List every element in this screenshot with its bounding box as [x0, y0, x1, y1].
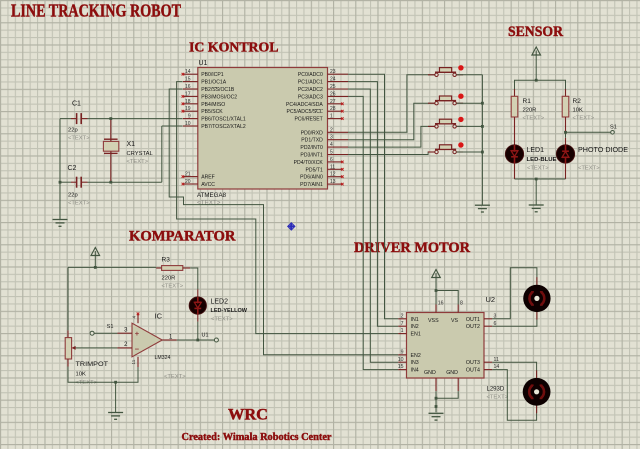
- svg-text:PC3/ADC3: PC3/ADC3: [298, 94, 323, 100]
- junction: LED2 / output wire: [196, 339, 199, 342]
- wire: ground rail left of crystal: [59, 119, 61, 219]
- wire: trimpot bottom / ground net: [68, 359, 138, 382]
- svg-text:AREF: AREF: [201, 175, 215, 181]
- svg-text:U1: U1: [202, 333, 209, 339]
- svg-text:R1: R1: [523, 98, 532, 105]
- svg-text:+: +: [135, 329, 140, 338]
- svg-text:PD2/INT0: PD2/INT0: [300, 145, 323, 151]
- svg-text:OUT2: OUT2: [466, 324, 480, 330]
- svg-text:GND: GND: [424, 370, 436, 376]
- trimpot RV1 (TRIMPOT 10K): [65, 338, 108, 386]
- photodiode (PHOTO DIODE): [556, 145, 628, 171]
- wire: S1 to op-amp pin 3: [94, 327, 132, 333]
- svg-text:DRIVER MOTOR: DRIVER MOTOR: [354, 240, 470, 256]
- svg-text:PC1/ADC1: PC1/ADC1: [298, 80, 323, 86]
- svg-text:2: 2: [330, 127, 333, 133]
- svg-text:EN2: EN2: [411, 353, 421, 359]
- svg-text:Created: Wimala Robotics Cente: Created: Wimala Robotics Center: [182, 432, 332, 443]
- svg-text:PD6/AIN0: PD6/AIN0: [300, 175, 323, 181]
- svg-text:PB6/TOSC1/XTAL1: PB6/TOSC1/XTAL1: [201, 117, 246, 123]
- svg-text:15: 15: [398, 364, 404, 370]
- svg-text:12: 12: [330, 172, 336, 178]
- svg-text:KOMPARATOR: KOMPARATOR: [129, 229, 236, 245]
- svg-text:U2: U2: [486, 295, 496, 304]
- U1 pin 4 PD2/INT0: [300, 142, 348, 151]
- section label: DRIVER MOTOR: [354, 240, 470, 256]
- svg-text:4: 4: [132, 316, 137, 319]
- svg-text:1: 1: [330, 114, 333, 120]
- svg-text:9: 9: [401, 349, 404, 355]
- svg-text:LED-YELLOW: LED-YELLOW: [211, 308, 248, 314]
- U2 pin 6 OUT2: [466, 321, 497, 330]
- wire: PC2 to IN3 of U2: [348, 89, 398, 362]
- wire: ground drop: [115, 382, 117, 412]
- svg-text:<TEXT>: <TEXT>: [164, 374, 186, 380]
- led LED2 (LED-YELLOW): [189, 297, 247, 322]
- wire: R2 to photo diode, S1 tap: [566, 117, 611, 145]
- U1 pin 3 PD1/TXD: [301, 135, 348, 144]
- svg-text:<TEXT>: <TEXT>: [527, 165, 549, 171]
- wire: OUT1 to motor M1 top: [492, 268, 537, 319]
- text: WRC: [228, 407, 268, 424]
- svg-text:S1: S1: [107, 324, 114, 330]
- U2 pin 8 VS (top): [451, 300, 463, 324]
- capacitor C2: [68, 165, 91, 207]
- svg-text:C1: C1: [72, 101, 81, 108]
- U1 pin 1 PC6/RESET: [294, 114, 343, 123]
- svg-text:7: 7: [401, 321, 404, 327]
- svg-text:IC KONTROL: IC KONTROL: [189, 39, 279, 54]
- wire: sensor bottom rail to ground: [515, 163, 566, 205]
- svg-text:26: 26: [330, 91, 336, 97]
- U1 pin 10 PB7/TOSC2/XTAL2: [183, 121, 246, 130]
- svg-text:IN3: IN3: [411, 360, 419, 366]
- svg-text:10K: 10K: [76, 371, 86, 377]
- U1 pin 27 PC4/ADC4/SDA: [286, 99, 344, 108]
- section label: KOMPARATOR: [129, 229, 236, 245]
- wire: PC3 to IN4 of U2: [348, 96, 398, 369]
- svg-text:IC: IC: [155, 312, 163, 321]
- svg-text:L293D: L293D: [487, 386, 505, 392]
- U1 pin 18 PB4/MISO: [182, 99, 226, 108]
- terminal S1 (komparator input): [90, 324, 113, 335]
- svg-text:24: 24: [330, 77, 336, 83]
- U1 pin 5 PD3/INT1: [300, 150, 348, 159]
- push button 3: [428, 117, 464, 128]
- power symbol (sensor): [532, 47, 541, 80]
- junction: power / sensor rail: [535, 79, 538, 82]
- svg-text:R3: R3: [162, 257, 171, 264]
- svg-text:X1: X1: [127, 141, 136, 148]
- svg-text:2: 2: [401, 313, 404, 319]
- svg-text:PD3/INT1: PD3/INT1: [300, 153, 323, 159]
- junction: crystal top / XTAL1: [109, 117, 112, 120]
- junction: R2 / S1 tap: [564, 131, 567, 134]
- svg-text:28: 28: [330, 106, 336, 112]
- svg-text:IN1: IN1: [411, 317, 419, 323]
- U1 pin 24 PC1/ADC1: [298, 77, 348, 86]
- svg-text:AVCC: AVCC: [201, 182, 215, 188]
- svg-text:11: 11: [330, 164, 335, 170]
- wire: button 3 to ground rail: [457, 125, 483, 127]
- wire: OUT2 to motor M1 bottom: [492, 312, 537, 326]
- title text: LINE TRACKING ROBOT: [11, 1, 181, 21]
- U1 pin 21 AREF: [182, 172, 215, 181]
- svg-text:20: 20: [185, 179, 191, 185]
- wire: button 2 to ground rail: [457, 102, 483, 104]
- crystal X1: [103, 119, 153, 183]
- U2 pin 15 IN4: [398, 364, 419, 373]
- ic U1 ATMEGA8 body: [197, 60, 328, 207]
- svg-text:23: 23: [330, 69, 336, 75]
- ground (buttons): [475, 205, 490, 212]
- wire: U1 pin 15 PB1 to EN1 of U2: [177, 82, 399, 334]
- U1 pin 2 PD0/RXD: [301, 127, 348, 136]
- svg-text:PC4/ADC4/SDA: PC4/ADC4/SDA: [286, 102, 323, 108]
- wire: OUT3 to motor M2 top: [492, 362, 536, 378]
- motor M2: [523, 370, 551, 413]
- svg-text:21: 21: [185, 172, 191, 178]
- svg-text:<TEXT>: <TEXT>: [211, 316, 233, 322]
- junction: power / rail: [94, 266, 97, 269]
- svg-text:−: −: [135, 345, 140, 354]
- led LED1 (LED-BLUE): [505, 145, 556, 171]
- U2 pin 3 OUT1: [466, 313, 497, 322]
- op-amp U3 LM324: [132, 312, 186, 381]
- U1 pin 28 PC5/ADC5/SCL: [287, 106, 344, 115]
- U2 pin 7 IN2: [398, 321, 418, 330]
- U2 pin 4 GND (bottom left): [424, 370, 436, 391]
- junction: button 3 / rail: [481, 125, 484, 128]
- section label: SENSOR: [508, 24, 563, 40]
- U2 pin 16 VSS (top): [428, 300, 444, 324]
- svg-text:CRYSTAL: CRYSTAL: [127, 151, 154, 157]
- svg-text:TRIMPOT: TRIMPOT: [76, 361, 109, 368]
- svg-text:PC0/ADC0: PC0/ADC0: [298, 72, 323, 78]
- svg-text:PB0/ICP1: PB0/ICP1: [201, 72, 224, 78]
- svg-text:PD1/TXD: PD1/TXD: [301, 138, 323, 144]
- U1 pin 14 PB0/ICP1: [182, 69, 224, 78]
- svg-text:GND: GND: [446, 370, 458, 376]
- svg-text:8: 8: [460, 300, 463, 306]
- svg-text:IN4: IN4: [411, 368, 419, 374]
- power symbol (driver): [432, 270, 441, 305]
- svg-text:PD0/RXD: PD0/RXD: [301, 130, 323, 136]
- wire: buttons ground rail: [481, 75, 483, 205]
- svg-text:C2: C2: [68, 165, 77, 172]
- svg-text:10: 10: [398, 357, 404, 363]
- svg-text:OUT4: OUT4: [466, 368, 480, 374]
- push button 2: [428, 94, 464, 105]
- svg-text:PB3/MOSI/OC2: PB3/MOSI/OC2: [201, 94, 237, 100]
- U1 pin 25 PC2/ADC2: [298, 84, 348, 93]
- svg-text:<TEXT>: <TEXT>: [523, 116, 545, 122]
- U1 pin 15 PB1/OC1A: [183, 77, 227, 86]
- power symbol (komparator): [91, 248, 100, 268]
- svg-text:11: 11: [131, 359, 136, 364]
- junction: sensor ground drop: [535, 178, 538, 181]
- wire: R1 to LED1: [514, 117, 516, 145]
- svg-text:OUT3: OUT3: [466, 360, 480, 366]
- U1 pin 13 PD7/AIN1: [300, 179, 343, 188]
- junction: ground wire: [435, 405, 438, 408]
- svg-text:3: 3: [330, 135, 333, 141]
- svg-text:S1: S1: [610, 125, 617, 131]
- svg-text:PD5/T1: PD5/T1: [306, 167, 323, 173]
- svg-text:VSS: VSS: [428, 318, 439, 324]
- ground (sensor): [529, 205, 544, 212]
- wire: PD2 to button 3: [348, 126, 435, 147]
- svg-text:17: 17: [185, 91, 191, 97]
- svg-text:15: 15: [185, 77, 191, 83]
- svg-text:LINE TRACKING ROBOT: LINE TRACKING ROBOT: [11, 1, 181, 21]
- wire: LED2 to op-amp output net: [197, 314, 199, 340]
- svg-text:LED1: LED1: [527, 147, 545, 154]
- push button 1: [428, 65, 464, 76]
- svg-text:14: 14: [185, 69, 191, 75]
- svg-text:PD7/AIN1: PD7/AIN1: [300, 182, 323, 188]
- svg-text:IN2: IN2: [411, 324, 419, 330]
- motor M1: [523, 277, 550, 319]
- wire: VS branch to power: [436, 291, 458, 305]
- svg-text:<TEXT>: <TEXT>: [578, 165, 600, 171]
- wire: OUT4 to motor M2 bottom: [492, 370, 536, 421]
- U1 pin 20 AVCC: [182, 179, 216, 188]
- junction: crystal bottom / XTAL2: [109, 181, 112, 184]
- U2 pin 14 OUT4: [466, 364, 500, 373]
- junction: VS branch: [435, 289, 438, 292]
- svg-text:4: 4: [330, 142, 333, 148]
- svg-text:R2: R2: [573, 98, 582, 105]
- svg-text:PB5/SCK: PB5/SCK: [201, 109, 223, 115]
- svg-text:PC2/ADC2: PC2/ADC2: [298, 87, 323, 93]
- junction: GND pins join: [435, 397, 438, 400]
- U2 pin 11 OUT3: [466, 357, 499, 366]
- wire: button 4 to ground rail: [457, 151, 483, 153]
- svg-text:PD4/T0/XCK: PD4/T0/XCK: [294, 160, 324, 166]
- svg-text:19: 19: [185, 106, 191, 112]
- svg-text:<TEXT>: <TEXT>: [76, 380, 98, 386]
- U2 pin 13 GND (bottom right): [446, 370, 458, 391]
- svg-text:EN1: EN1: [411, 332, 421, 338]
- svg-text:13: 13: [330, 179, 336, 185]
- capacitor C1: [68, 101, 90, 142]
- wire: U2 ground net: [436, 391, 458, 412]
- origin marker (blue): [288, 223, 295, 230]
- svg-text:18: 18: [185, 99, 191, 105]
- svg-text:<TEXT>: <TEXT>: [573, 116, 595, 122]
- svg-text:OUT1: OUT1: [466, 317, 480, 323]
- svg-text:PB2/SS/OC1B: PB2/SS/OC1B: [201, 87, 235, 93]
- junction: C2 wire / ground rail: [59, 181, 62, 184]
- svg-text:16: 16: [185, 84, 191, 90]
- U1 pin 17 PB3/MOSI/OC2: [182, 91, 238, 100]
- op-amp power pin 4 (top stub): [132, 313, 140, 324]
- svg-text:U1: U1: [199, 60, 208, 67]
- U1 pin 9 PB6/TOSC1/XTAL1: [183, 114, 246, 123]
- svg-text:22p: 22p: [68, 192, 78, 198]
- wire: sensor V+ rail: [515, 80, 566, 96]
- U1 pin 16 PB2/SS/OC1B: [183, 84, 235, 93]
- wire: R3 to LED2: [183, 268, 198, 297]
- wire: PD0 to button 1: [348, 75, 435, 133]
- svg-text:22p: 22p: [68, 127, 78, 133]
- svg-text:27: 27: [330, 99, 336, 105]
- svg-text:<TEXT>: <TEXT>: [127, 159, 149, 165]
- U1 pin 11 PD5/T1: [306, 164, 344, 173]
- wire: PC1 to IN2 of U2: [348, 82, 398, 327]
- wire: trimpot wiper to op-amp pin 2: [74, 342, 132, 348]
- svg-text:VS: VS: [451, 318, 459, 324]
- text: Created Wimala Robotics Center: [182, 432, 332, 443]
- svg-text:1: 1: [401, 328, 404, 334]
- U2 pin 2 IN1: [398, 313, 418, 322]
- U2 pin 1 EN1: [398, 328, 421, 337]
- wire XTAL1 net: C1 to U1 pin 9: [60, 118, 183, 120]
- wire: PC0 to IN1 of U2: [348, 74, 398, 319]
- svg-text:5: 5: [330, 150, 333, 156]
- wire: button 1 to ground rail: [457, 74, 483, 76]
- resistor R2: [562, 96, 595, 121]
- wire: PD1 to button 2: [348, 103, 435, 140]
- wire: U1 pin 16 PB2 to EN2 of U2: [169, 89, 398, 355]
- U1 pin 12 PD6/AIN0: [300, 172, 343, 181]
- svg-text:PB7/TOSC2/XTAL2: PB7/TOSC2/XTAL2: [201, 124, 246, 130]
- U1 pin 6 PD4/T0/XCK: [294, 157, 344, 166]
- ground (komparator): [108, 413, 123, 420]
- U1 pin 26 PC3/ADC3: [298, 91, 348, 100]
- wire: PD3 to button 4: [348, 152, 435, 155]
- svg-text:25: 25: [330, 84, 336, 90]
- svg-text:220R: 220R: [162, 275, 176, 281]
- op-amp power pin 11 (bottom stub): [131, 357, 138, 367]
- svg-text:PHOTO DIODE: PHOTO DIODE: [578, 147, 628, 154]
- junction: button 2 / rail: [481, 102, 484, 105]
- svg-text:<TEXT>: <TEXT>: [68, 201, 90, 207]
- svg-text:PB1/OC1A: PB1/OC1A: [201, 80, 227, 86]
- svg-text:6: 6: [330, 157, 333, 163]
- svg-text:ATMEGA8: ATMEGA8: [197, 192, 226, 199]
- svg-text:<TEXT>: <TEXT>: [197, 200, 221, 207]
- terminal U1 (komparator output): [202, 333, 219, 342]
- svg-text:LED2: LED2: [211, 298, 229, 305]
- wire XTAL2 net: C2 to U1 pin 10: [60, 126, 183, 182]
- junction: ground drop: [114, 381, 117, 384]
- U1 pin 19 PB5/SCK: [182, 106, 224, 115]
- ic U2 L293D body: [407, 295, 509, 401]
- svg-text:<TEXT>: <TEXT>: [68, 136, 90, 142]
- junction: button 4 / rail: [481, 151, 484, 154]
- U2 pin 9 EN2: [398, 349, 421, 358]
- svg-text:PC6/RESET: PC6/RESET: [294, 117, 322, 123]
- svg-text:<TEXT>: <TEXT>: [487, 395, 509, 401]
- svg-text:PC5/ADC5/SCL: PC5/ADC5/SCL: [287, 109, 323, 115]
- svg-text:LED-BLUE: LED-BLUE: [527, 157, 557, 163]
- svg-text:LM324: LM324: [155, 355, 171, 361]
- svg-text:SENSOR: SENSOR: [508, 24, 563, 40]
- svg-text:16: 16: [438, 300, 444, 306]
- svg-text:PB4/MISO: PB4/MISO: [201, 102, 225, 108]
- resistor R1: [511, 96, 545, 121]
- U2 pin 10 IN3: [398, 357, 419, 366]
- svg-text:220R: 220R: [523, 108, 537, 114]
- svg-text:10: 10: [185, 121, 191, 127]
- svg-text:WRC: WRC: [228, 407, 268, 424]
- section label: IC KONTROL: [189, 39, 279, 54]
- svg-text:9: 9: [188, 114, 191, 120]
- U1 pin 23 PC0/ADC0: [298, 69, 348, 78]
- resistor R3: [156, 257, 184, 290]
- svg-text:10K: 10K: [573, 108, 583, 114]
- wire: komparator V+ rail: [68, 267, 156, 337]
- wire: op-amp output to terminal U1: [162, 334, 214, 340]
- ground (crystal circuit): [53, 220, 68, 227]
- terminal S1 (sensor output): [610, 125, 617, 135]
- svg-text:<TEXT>: <TEXT>: [162, 283, 184, 289]
- ground (driver): [429, 413, 444, 420]
- push button 4: [428, 142, 464, 153]
